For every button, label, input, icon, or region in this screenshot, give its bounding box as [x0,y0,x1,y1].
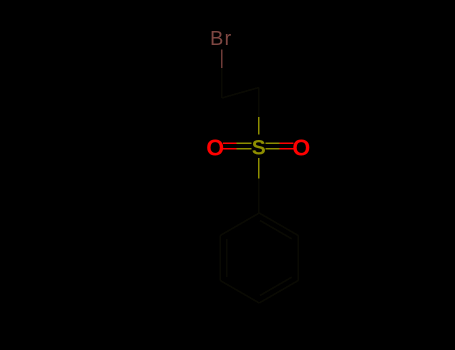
svg-text:Br: Br [210,28,232,50]
bond C1-C2 (dark) [222,88,259,99]
bond S-C3 (S half, olive) [258,158,260,179]
ring edge LR-B [259,281,298,304]
ring edge UR-LR [297,236,299,281]
double bond S=O left, lower line [223,148,237,150]
double bond S=O right, lower line [266,148,280,150]
bond C2-S (S half, olive) [258,117,260,135]
ring edge LL-UL [219,236,221,281]
double bond S=O right, upper line (S half olive, O half red) [266,143,280,145]
ring edge B-LL [220,281,259,304]
svg-text:O: O [206,135,224,161]
ring edge UL-T [220,213,259,236]
svg-text:S: S [252,136,266,159]
aromatic inner line near T-UR [260,221,292,239]
aromatic inner line near LR-B [260,277,292,295]
bond C2-S (C half, dark) [258,88,260,118]
svg-text:O: O [292,135,310,161]
bond S-C3 (C half, dark) [258,179,260,213]
bond Br-C1 (C half, dark) [221,68,223,98]
double bond S=O left, upper line (O half red, S half olive) [223,143,237,145]
aromatic inner line near LL-UL [226,239,228,277]
bond Br-C1 (Br half, maroon) [221,50,223,69]
benzene ring (dark carbon skeleton) [220,213,298,303]
ring edge T-UR [259,213,298,236]
